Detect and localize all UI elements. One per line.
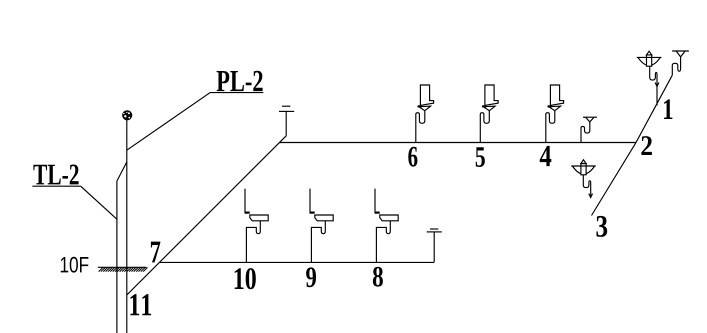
cleanout T symbol at top of diagonal xyxy=(279,106,294,136)
label 4 xyxy=(540,146,552,166)
riser TL-2 vertical pipe xyxy=(116,181,118,333)
trap and arrowed drop from vent cap near 1 xyxy=(650,66,659,105)
label 9 xyxy=(306,267,316,287)
label 6 xyxy=(408,147,417,167)
TL-2 to PL-2 top connector jog xyxy=(117,162,127,181)
funnel drain fixture 1 with trap at top of diagonal xyxy=(672,51,689,75)
label 8 xyxy=(373,267,383,287)
urinal fixture 6 xyxy=(416,85,434,143)
leader line to PL-2 label xyxy=(127,92,211,150)
floor level line 10F xyxy=(98,266,147,268)
vent cap symbol near 3 xyxy=(571,160,596,175)
label 10F floor tag xyxy=(61,257,89,273)
riser PL-2 vertical pipe xyxy=(126,119,128,333)
label 3 xyxy=(596,216,607,237)
label 11 xyxy=(130,294,151,315)
underline of TL-2 label xyxy=(32,185,80,187)
trap and arrowed drop from vent cap near 3 xyxy=(583,175,592,198)
diagonal branch from junction 2 up to 1 xyxy=(636,75,672,142)
label 1 xyxy=(664,99,672,119)
urinal fixture 5 xyxy=(480,85,498,143)
main 45-degree branch diagonal from PL-2 riser xyxy=(127,136,286,295)
water closet fixture 8 xyxy=(375,189,399,263)
funnel drain fixture on upper branch xyxy=(581,117,597,142)
diagonal branch from 3 to junction 2 xyxy=(592,143,637,216)
label 5 xyxy=(476,147,485,167)
urinal fixture 4 xyxy=(546,85,564,143)
label 2 xyxy=(641,136,652,155)
upper horizontal branch main xyxy=(279,142,636,144)
label 10 xyxy=(235,268,256,289)
leader line to TL-2 label xyxy=(81,186,117,219)
label 7 xyxy=(151,242,160,263)
lower horizontal branch main xyxy=(160,261,434,263)
water closet fixture 9 xyxy=(310,189,334,263)
vent cap symbol near 1 xyxy=(637,51,662,66)
label TL-2 xyxy=(33,165,78,185)
cleanout T symbol at right end of lower branch xyxy=(427,229,442,262)
water closet fixture 10 xyxy=(245,189,269,263)
vent ball on top of PL-2 xyxy=(122,110,132,120)
label PL-2 xyxy=(217,71,263,91)
underline of PL-2 label xyxy=(211,92,264,94)
floor hatch ticks xyxy=(99,268,148,272)
